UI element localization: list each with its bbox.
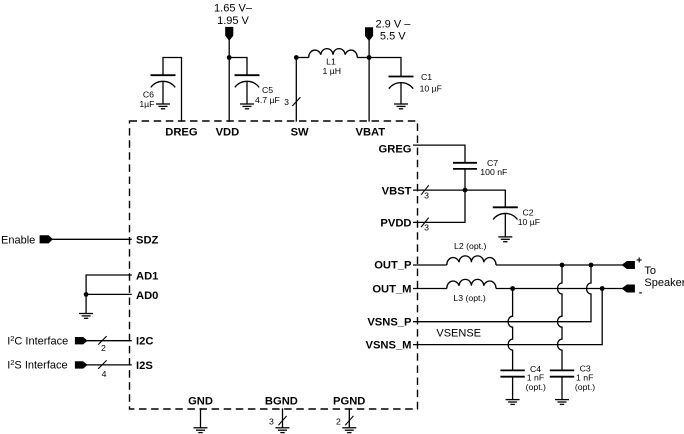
svg-text:3: 3 (284, 97, 289, 107)
slash bus-width I2S (98, 360, 106, 368)
value label C6 (139, 90, 154, 110)
slash bus-width I2C (98, 336, 106, 344)
wire VBAT terminal to pin (368, 40, 370, 122)
ground PGND (342, 428, 356, 433)
junction dot SW node (294, 55, 299, 60)
slash bus-width SW (292, 97, 300, 106)
svg-text:DREG: DREG (165, 126, 198, 138)
svg-text:C6: C6 (143, 90, 154, 100)
wire OUT_P to speaker plus (496, 264, 623, 266)
capacitor C7 (453, 163, 477, 190)
svg-text:-: - (639, 288, 642, 299)
speaker terminal minus (622, 285, 634, 292)
wire PGND pin to ground (348, 408, 350, 428)
svg-text:4: 4 (102, 369, 107, 379)
wire SW node to L1 (296, 57, 308, 59)
svg-text:VDD: VDD (216, 126, 240, 138)
label To Speaker (644, 265, 684, 289)
ground C1 (394, 104, 408, 109)
svg-text:1µF: 1µF (139, 99, 154, 109)
wire VDD terminal to pin (228, 39, 230, 122)
svg-text:10 µF: 10 µF (518, 217, 540, 227)
value label C5 (255, 85, 280, 105)
svg-text:+: + (636, 256, 642, 267)
inductor L3 (447, 279, 496, 288)
svg-text:4.7 µF: 4.7 µF (255, 95, 280, 105)
svg-text:2.9 V –: 2.9 V – (376, 18, 412, 30)
capacitor C4 (500, 370, 524, 399)
input terminal I2S (75, 362, 87, 369)
svg-text:100 nF: 100 nF (480, 167, 507, 177)
capacitor C2 (493, 207, 518, 237)
svg-text:10 µF: 10 µF (420, 84, 442, 94)
junction dot OUT_M to C4 (510, 286, 515, 291)
svg-text:AD0: AD0 (136, 290, 158, 302)
svg-text:Enable: Enable (1, 234, 35, 246)
junction dot VBST node (463, 188, 468, 193)
junction dot VDD node (227, 55, 232, 60)
svg-text:OUT_M: OUT_M (372, 284, 411, 296)
IC dashed boundary box (130, 121, 418, 409)
value label C3 (575, 363, 595, 392)
capacitor C6 (151, 75, 176, 104)
wire I2C to pin (87, 340, 132, 342)
ground C2 (498, 237, 512, 242)
svg-text:VSNS_P: VSNS_P (367, 316, 412, 328)
svg-text:BGND: BGND (265, 395, 298, 407)
svg-text:5.5 V: 5.5 V (380, 31, 406, 43)
ground C3 (555, 400, 569, 405)
junction dot VSNS_M to OUT_M (600, 286, 605, 291)
svg-text:2: 2 (101, 343, 106, 353)
label 1.65V supply (214, 3, 253, 28)
wire VSNS_P pin to OUT_P with hop (413, 265, 591, 322)
wire AD0 node to ground (85, 294, 87, 313)
junction dot OUT_P to C3 (560, 263, 565, 268)
input terminal Enable (40, 236, 52, 243)
svg-text:PGND: PGND (333, 395, 365, 407)
label 2.9V supply (376, 18, 412, 42)
svg-text:C1: C1 (421, 72, 432, 82)
svg-text:(opt.): (opt.) (526, 382, 546, 392)
svg-text:3: 3 (424, 223, 429, 233)
wire VBST node to C2 (465, 190, 505, 207)
slash bus-width PVDD (421, 218, 429, 228)
wire OUT_M to speaker minus (496, 288, 623, 290)
junction dot VBAT node (367, 55, 372, 60)
wire VDD node to C5 (229, 58, 247, 76)
svg-text:VSENSE: VSENSE (436, 328, 481, 340)
svg-text:L1: L1 (326, 57, 336, 67)
ground C4 (506, 400, 520, 405)
svg-text:1.95 V: 1.95 V (217, 15, 249, 27)
svg-text:Speaker: Speaker (644, 277, 684, 289)
wire L1 to VBAT node (357, 57, 369, 59)
svg-text:GREG: GREG (379, 143, 412, 155)
svg-text:L2 (opt.): L2 (opt.) (454, 241, 486, 251)
wire GND pin to ground (200, 408, 202, 428)
wire DREG pin up and over to C6 (163, 58, 182, 122)
svg-text:I2C: I2C (136, 336, 153, 348)
value label L1 (323, 57, 342, 77)
svg-text:AD1: AD1 (136, 270, 158, 282)
svg-text:L3 (opt.): L3 (opt.) (453, 293, 485, 303)
svg-text:C5: C5 (262, 85, 273, 95)
svg-text:(opt.): (opt.) (575, 382, 595, 392)
wire I2S to pin (87, 364, 132, 366)
svg-text:1 µH: 1 µH (323, 66, 342, 76)
svg-text:SW: SW (291, 126, 309, 138)
svg-text:OUT_P: OUT_P (374, 259, 412, 271)
svg-text:I2C Interface: I2C Interface (7, 334, 68, 348)
svg-text:VSNS_M: VSNS_M (365, 339, 411, 351)
wire SW pin up to node (295, 58, 297, 122)
slash bus-width BGND (278, 416, 286, 425)
svg-text:To: To (644, 265, 656, 277)
value label C4 (526, 364, 546, 392)
slash bus-width VBST (421, 185, 429, 195)
svg-text:1.65 V–: 1.65 V– (214, 3, 253, 15)
svg-text:3: 3 (269, 417, 274, 427)
ground AD0 (79, 314, 93, 319)
ground GND (194, 428, 208, 433)
svg-text:VBST: VBST (382, 185, 412, 197)
svg-text:3: 3 (424, 190, 429, 200)
wire OUT_P pin to L2 (413, 264, 447, 266)
ground C5 (240, 104, 254, 109)
junction dot VSNS_P to OUT_P (589, 263, 594, 268)
slash bus-width PGND (345, 416, 353, 425)
svg-text:VBAT: VBAT (355, 126, 385, 138)
svg-text:PVDD: PVDD (380, 218, 411, 230)
wire AD0 pin (86, 293, 132, 295)
wire VBST pin to node (413, 189, 465, 191)
inductor L1 (309, 49, 358, 58)
value label C2 (518, 208, 540, 227)
power terminal VBAT supply (365, 28, 372, 41)
svg-text:I2S: I2S (136, 360, 153, 372)
wire VBAT node to C1 (369, 58, 401, 77)
svg-text:2: 2 (336, 417, 341, 427)
wire Enable to SDZ pin (52, 238, 132, 240)
wire BGND pin to ground (282, 408, 284, 428)
speaker terminal plus (622, 261, 634, 268)
wire VSNS_M pin to OUT_M (413, 289, 602, 345)
wire AD1 pin (86, 275, 132, 294)
inductor L2 (447, 256, 496, 265)
svg-text:GND: GND (188, 395, 213, 407)
value label C1 (420, 72, 442, 94)
wire C4 branch with hops (508, 289, 512, 371)
wire OUT_M pin to L3 (413, 288, 447, 290)
svg-text:I2S Interface: I2S Interface (7, 358, 67, 372)
power terminal VDD supply (226, 27, 233, 40)
ground BGND (276, 428, 290, 433)
capacitor C5 (235, 75, 260, 104)
wire PVDD pin to VBST node (413, 190, 465, 222)
capacitor C1 (389, 77, 414, 105)
junction dot AD0 node (84, 292, 89, 297)
wire C3 branch with hops (558, 265, 563, 370)
capacitor C3 (550, 370, 574, 399)
svg-text:SDZ: SDZ (136, 234, 159, 246)
input terminal I2C (75, 337, 87, 344)
ground C6 (156, 104, 170, 109)
value label C7 (480, 158, 507, 177)
wire GREG to C7 (413, 145, 465, 163)
